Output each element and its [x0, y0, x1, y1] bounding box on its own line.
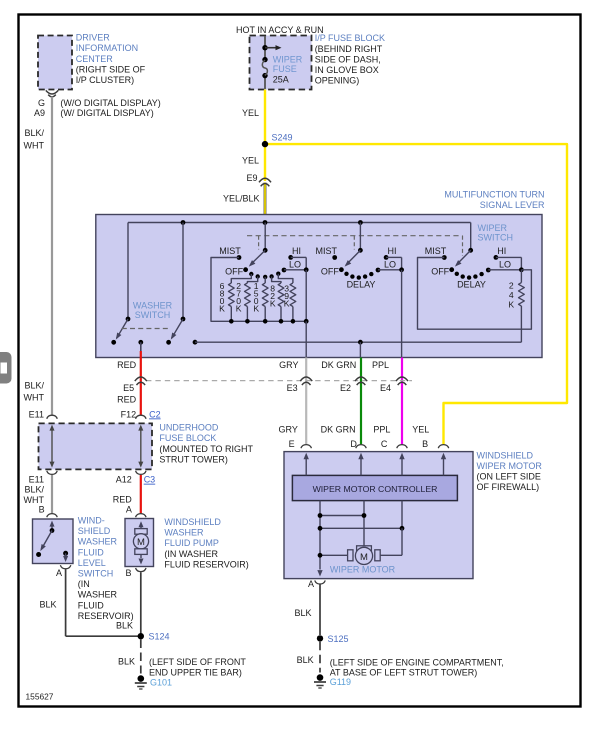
svg-text:(W/O DIGITAL DISPLAY): (W/O DIGITAL DISPLAY) [60, 98, 160, 108]
svg-text:WIPER MOTOR: WIPER MOTOR [477, 461, 543, 471]
svg-text:B: B [422, 439, 428, 449]
svg-text:WHT: WHT [24, 141, 45, 151]
svg-text:DELAY: DELAY [457, 279, 486, 289]
svg-text:YEL/BLK: YEL/BLK [223, 193, 260, 203]
svg-text:LO: LO [499, 259, 511, 269]
svg-text:(MOUNTED TO RIGHT: (MOUNTED TO RIGHT [159, 444, 253, 454]
svg-text:DK GRN: DK GRN [321, 360, 356, 370]
svg-text:BLK/: BLK/ [24, 128, 44, 138]
svg-text:S249: S249 [272, 133, 293, 143]
svg-text:C3: C3 [144, 475, 156, 485]
svg-text:PPL: PPL [372, 360, 389, 370]
svg-text:155627: 155627 [26, 692, 54, 702]
svg-text:FLUID: FLUID [78, 547, 105, 557]
svg-text:WHT: WHT [24, 393, 45, 403]
svg-text:A: A [308, 579, 314, 589]
svg-text:A12: A12 [116, 475, 132, 485]
svg-text:MIST: MIST [425, 246, 447, 256]
svg-text:WHT: WHT [24, 495, 45, 505]
svg-text:E3: E3 [287, 383, 298, 393]
svg-text:K: K [284, 299, 290, 309]
svg-text:K: K [219, 303, 225, 313]
svg-text:G: G [38, 98, 45, 108]
svg-text:SIGNAL LEVER: SIGNAL LEVER [480, 200, 545, 210]
svg-text:DELAY: DELAY [347, 279, 376, 289]
svg-text:WIPER MOTOR CONTROLLER: WIPER MOTOR CONTROLLER [313, 484, 438, 494]
svg-text:PPL: PPL [373, 425, 390, 435]
svg-text:BLK/: BLK/ [24, 381, 44, 391]
svg-text:WIPER MOTOR: WIPER MOTOR [330, 565, 396, 575]
svg-text:WASHER: WASHER [78, 590, 118, 600]
svg-text:K: K [253, 303, 259, 313]
svg-text:E5: E5 [123, 383, 134, 393]
svg-text:E11: E11 [29, 409, 44, 419]
svg-text:FUSE BLOCK: FUSE BLOCK [159, 433, 216, 443]
svg-text:E9: E9 [246, 173, 257, 183]
svg-text:(IN WASHER: (IN WASHER [164, 549, 218, 559]
svg-text:E: E [289, 439, 295, 449]
svg-text:WASHER: WASHER [164, 528, 204, 538]
svg-text:MIST: MIST [219, 246, 241, 256]
svg-text:YEL: YEL [242, 156, 259, 166]
svg-text:(BEHIND RIGHT: (BEHIND RIGHT [315, 44, 383, 54]
svg-text:YEL: YEL [242, 108, 259, 118]
svg-text:BLK: BLK [116, 621, 133, 631]
svg-text:RED: RED [117, 394, 137, 404]
svg-text:DRIVER: DRIVER [76, 33, 111, 43]
svg-text:OFF: OFF [431, 267, 449, 277]
svg-text:BLK: BLK [297, 655, 314, 665]
svg-text:END UPPER TIE BAR): END UPPER TIE BAR) [149, 668, 242, 678]
svg-text:HOT IN ACCY & RUN: HOT IN ACCY & RUN [236, 25, 324, 35]
svg-text:OFF: OFF [225, 267, 243, 277]
svg-text:C: C [381, 439, 388, 449]
svg-text:(ON LEFT SIDE: (ON LEFT SIDE [477, 472, 541, 482]
svg-text:A: A [56, 568, 62, 578]
svg-text:B: B [125, 568, 131, 578]
svg-text:I/P CLUSTER): I/P CLUSTER) [76, 75, 134, 85]
svg-text:FLUID RESERVOIR): FLUID RESERVOIR) [164, 559, 248, 569]
svg-text:OFF: OFF [321, 267, 339, 277]
svg-text:OF FIREWALL): OF FIREWALL) [477, 482, 540, 492]
svg-text:(LEFT SIDE OF FRONT: (LEFT SIDE OF FRONT [149, 657, 246, 667]
svg-text:AT BASE OF LEFT STRUT TOWER): AT BASE OF LEFT STRUT TOWER) [330, 667, 478, 677]
svg-text:WINDSHIELD: WINDSHIELD [164, 517, 221, 527]
svg-text:HI: HI [388, 246, 397, 256]
svg-text:YEL: YEL [412, 425, 429, 435]
svg-text:LO: LO [384, 259, 396, 269]
svg-text:K: K [508, 300, 514, 310]
svg-text:SWITCH: SWITCH [78, 569, 114, 579]
svg-text:2: 2 [509, 281, 514, 291]
svg-text:E2: E2 [340, 383, 351, 393]
svg-text:MULTIFUNCTION TURN: MULTIFUNCTION TURN [444, 190, 544, 200]
svg-text:F12: F12 [121, 409, 137, 419]
svg-text:4: 4 [509, 290, 514, 300]
svg-text:LO: LO [289, 259, 301, 269]
svg-text:OPENING): OPENING) [315, 76, 360, 86]
svg-text:IN GLOVE BOX: IN GLOVE BOX [315, 65, 379, 75]
svg-text:A9: A9 [34, 108, 45, 118]
svg-text:(LEFT SIDE OF ENGINE COMPARTME: (LEFT SIDE OF ENGINE COMPARTMENT, [330, 657, 504, 667]
svg-text:SWITCH: SWITCH [135, 310, 171, 320]
svg-text:S125: S125 [328, 634, 349, 644]
svg-text:SHIELD: SHIELD [78, 526, 111, 536]
svg-text:25A: 25A [273, 75, 289, 85]
svg-text:MIST: MIST [316, 246, 338, 256]
svg-text:UNDERHOOD: UNDERHOOD [159, 423, 219, 433]
svg-text:B: B [39, 505, 45, 515]
svg-text:C2: C2 [149, 409, 161, 419]
svg-text:BLK: BLK [118, 657, 135, 667]
svg-text:M: M [360, 552, 368, 563]
svg-text:LEVEL: LEVEL [78, 558, 106, 568]
svg-text:BLK: BLK [294, 608, 311, 618]
svg-text:FLUID PUMP: FLUID PUMP [164, 538, 219, 548]
svg-text:S124: S124 [149, 632, 170, 642]
svg-text:(IN: (IN [78, 579, 90, 589]
svg-text:FLUID: FLUID [78, 600, 105, 610]
svg-text:WINDSHIELD: WINDSHIELD [477, 450, 534, 460]
svg-text:E4: E4 [380, 383, 391, 393]
svg-text:BLK: BLK [39, 599, 56, 609]
svg-text:M: M [137, 537, 145, 548]
svg-text:GRY: GRY [279, 425, 298, 435]
svg-text:HI: HI [292, 246, 301, 256]
svg-text:I/P FUSE BLOCK: I/P FUSE BLOCK [315, 33, 385, 43]
svg-text:RESERVOIR): RESERVOIR) [78, 611, 134, 621]
svg-text:SWITCH: SWITCH [478, 233, 514, 243]
svg-text:WASHER: WASHER [78, 537, 118, 547]
svg-text:(RIGHT SIDE OF: (RIGHT SIDE OF [76, 64, 146, 74]
svg-text:WIPER: WIPER [478, 223, 508, 233]
svg-text:K: K [270, 299, 276, 309]
svg-text:GRY: GRY [279, 360, 298, 370]
svg-text:K: K [236, 303, 242, 313]
svg-text:A: A [126, 505, 132, 515]
svg-text:INFORMATION: INFORMATION [76, 43, 138, 53]
svg-text:STRUT TOWER): STRUT TOWER) [159, 454, 228, 464]
svg-text:G101: G101 [150, 677, 172, 687]
svg-text:FUSE: FUSE [273, 64, 297, 74]
svg-text:HI: HI [497, 246, 506, 256]
svg-text:WIND-: WIND- [78, 516, 105, 526]
svg-text:RED: RED [117, 360, 137, 370]
svg-text:G119: G119 [330, 677, 351, 687]
svg-text:CENTER: CENTER [76, 54, 114, 64]
svg-text:DK GRN: DK GRN [321, 425, 356, 435]
svg-text:SIDE OF DASH,: SIDE OF DASH, [315, 54, 381, 64]
svg-text:(W/ DIGITAL DISPLAY): (W/ DIGITAL DISPLAY) [60, 108, 153, 118]
svg-text:BLK/: BLK/ [24, 484, 44, 494]
svg-text:RED: RED [113, 494, 133, 504]
svg-text:E11: E11 [29, 475, 44, 485]
